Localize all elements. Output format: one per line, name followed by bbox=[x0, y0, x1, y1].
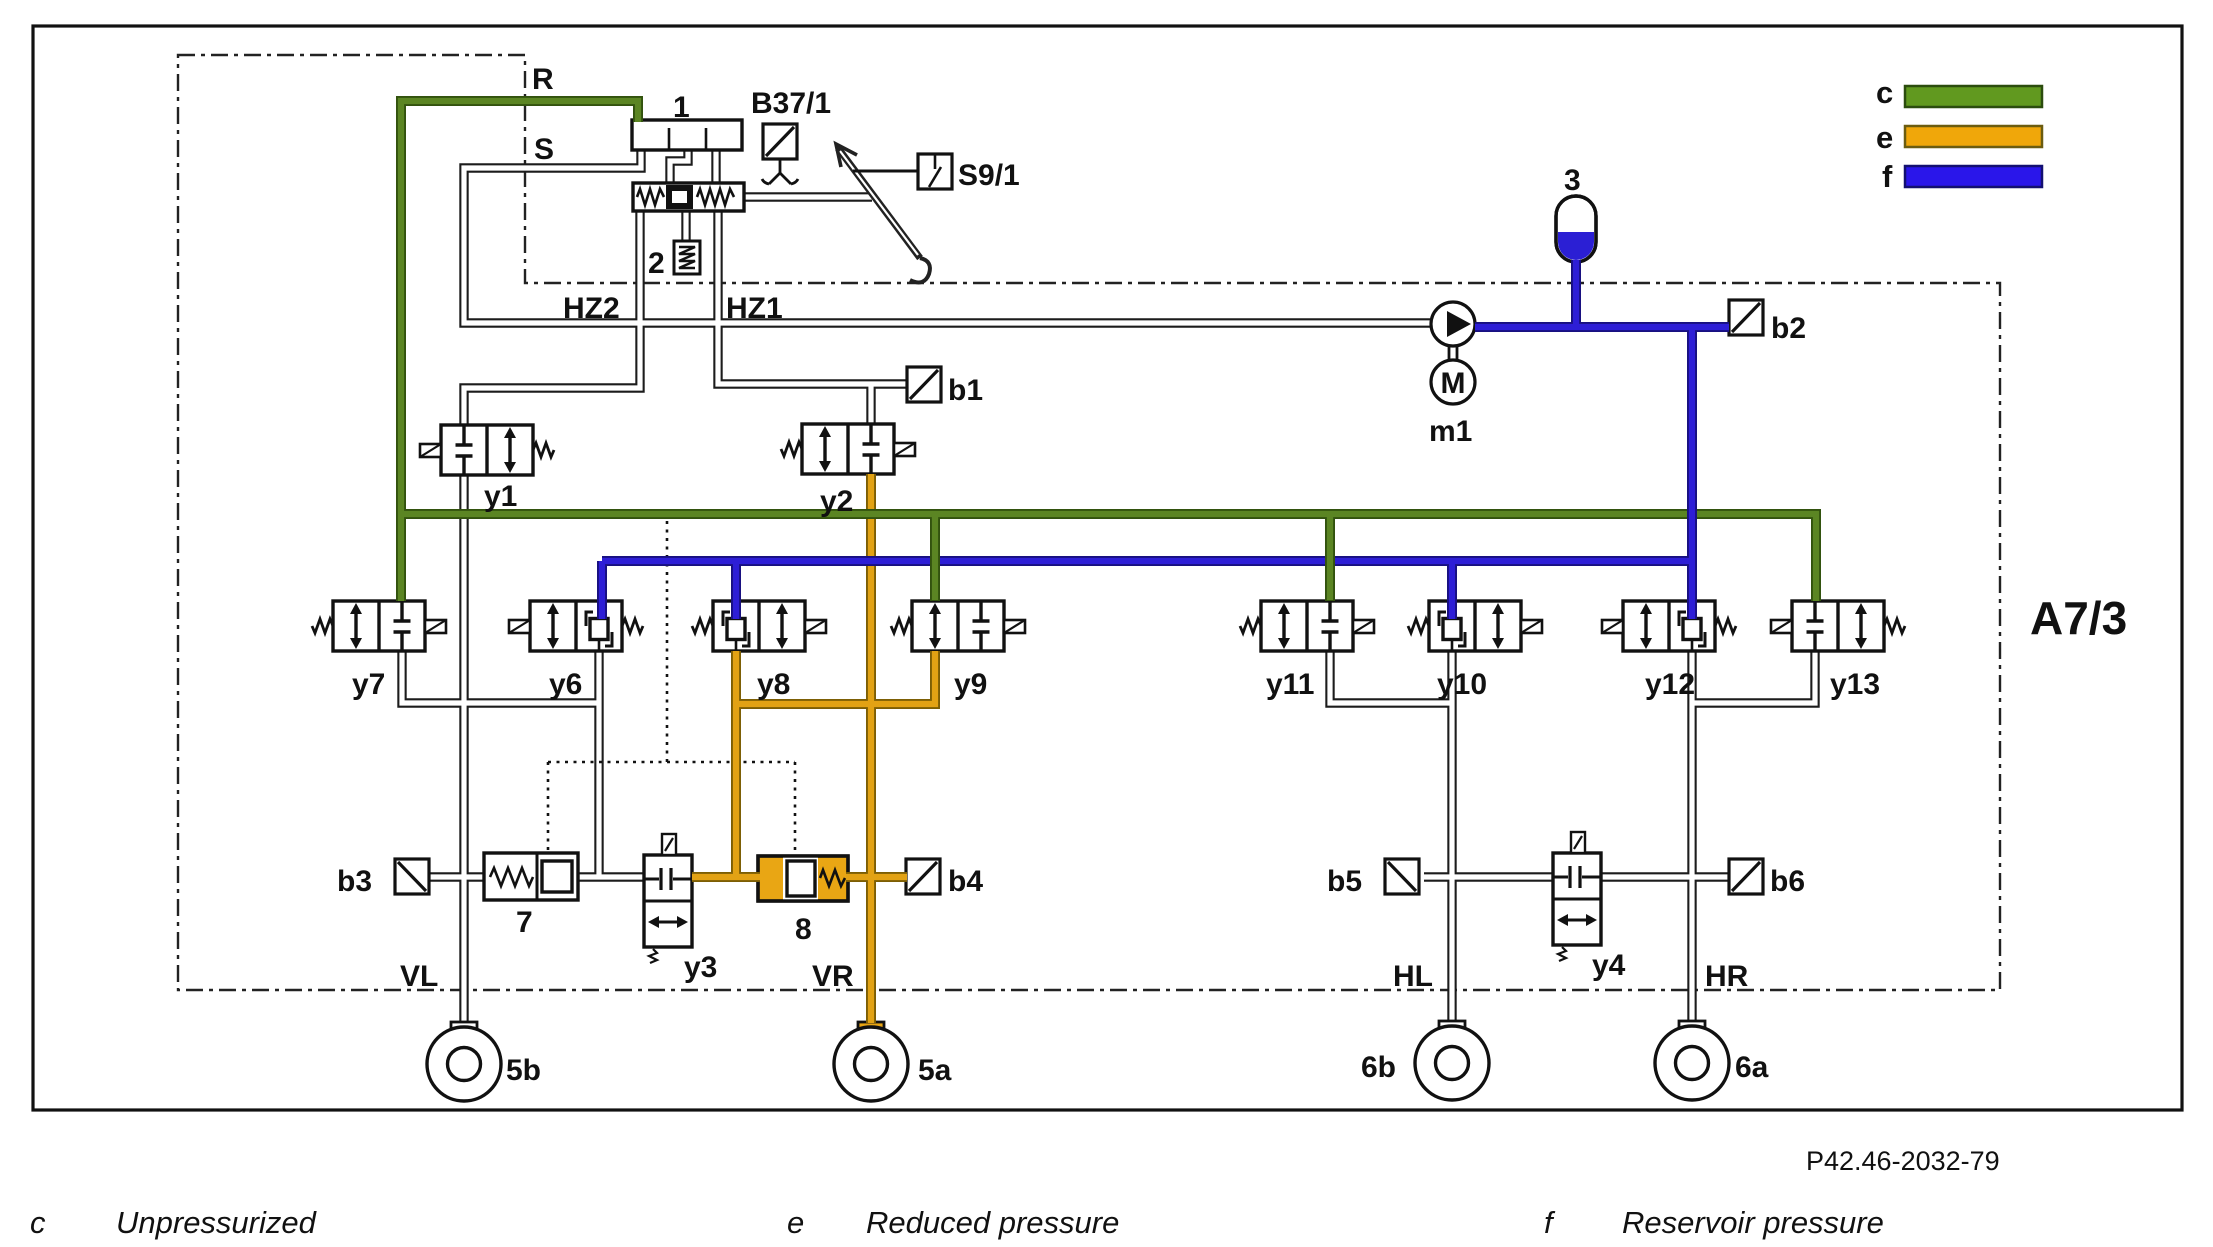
svg-text:f: f bbox=[1882, 159, 1893, 194]
svg-text:y8: y8 bbox=[757, 668, 790, 701]
valve y9 bbox=[891, 601, 1025, 651]
svg-text:b5: b5 bbox=[1327, 865, 1362, 898]
svg-text:R: R bbox=[532, 63, 554, 96]
svg-text:8: 8 bbox=[795, 913, 812, 946]
accumulator 3 bbox=[1556, 196, 1596, 262]
motor m1 bbox=[1431, 360, 1475, 404]
svg-text:b2: b2 bbox=[1771, 312, 1806, 345]
blue network dark edge bbox=[602, 260, 1729, 619]
svg-text:7: 7 bbox=[516, 906, 533, 939]
svg-text:y1: y1 bbox=[484, 480, 517, 513]
svg-text:3: 3 bbox=[1564, 164, 1581, 197]
svg-text:HZ2: HZ2 bbox=[563, 292, 620, 325]
svg-text:Reduced pressure: Reduced pressure bbox=[866, 1205, 1119, 1240]
svg-text:HL: HL bbox=[1393, 960, 1433, 993]
svg-text:e: e bbox=[1876, 120, 1893, 155]
pressure regulator valve 7 bbox=[484, 853, 578, 900]
valve y1 bbox=[420, 425, 554, 475]
wheel 6b bbox=[1415, 1026, 1489, 1100]
changeover valve y3 bbox=[644, 834, 692, 963]
legend bar e orange bbox=[1905, 126, 2042, 147]
svg-text:b3: b3 bbox=[337, 865, 372, 898]
master cylinder body bbox=[633, 183, 744, 211]
pilot dotted line from green bus down bbox=[666, 521, 669, 762]
svg-text:y10: y10 bbox=[1437, 668, 1487, 701]
legend bar f blue bbox=[1905, 166, 2042, 187]
wheel 5b bbox=[427, 1027, 501, 1101]
wheel 5a bbox=[834, 1027, 908, 1101]
svg-text:P42.46-2032-79: P42.46-2032-79 bbox=[1806, 1146, 2000, 1176]
green drop over blue at y9 bbox=[930, 519, 940, 601]
pressure sensor b6 bbox=[1729, 859, 1763, 894]
B37/1 stem and fork linkage bbox=[762, 159, 798, 184]
green network core bbox=[401, 101, 1816, 601]
green drop over blue at y11 bbox=[1325, 519, 1335, 601]
svg-text:y4: y4 bbox=[1592, 949, 1626, 982]
valve y11 bbox=[1240, 601, 1374, 651]
gray pipes black outline layer bbox=[402, 150, 1815, 1023]
pressure sensor b3 bbox=[395, 859, 429, 894]
svg-text:S: S bbox=[534, 133, 554, 166]
svg-text:m1: m1 bbox=[1429, 415, 1472, 448]
svg-text:2: 2 bbox=[648, 247, 665, 280]
pump-motor coupling bbox=[1449, 347, 1457, 359]
damper 2 bbox=[674, 241, 700, 274]
svg-text:B37/1: B37/1 bbox=[751, 87, 831, 120]
wheel 6a stub bbox=[1679, 1021, 1705, 1042]
valve y10 bbox=[1408, 601, 1542, 651]
pilot dotted to valve 8 bbox=[794, 762, 797, 856]
A7/3 dash-dot boundary bbox=[178, 55, 2000, 990]
svg-text:y12: y12 bbox=[1645, 668, 1695, 701]
valve y12 bbox=[1602, 601, 1736, 651]
wheel 6b stub bbox=[1439, 1021, 1465, 1042]
svg-text:y3: y3 bbox=[684, 951, 717, 984]
pressure sensor b4 bbox=[906, 859, 940, 894]
svg-text:6b: 6b bbox=[1361, 1051, 1396, 1084]
svg-text:b6: b6 bbox=[1770, 865, 1805, 898]
pilot dotted horizontal bbox=[548, 761, 795, 764]
svg-text:y7: y7 bbox=[352, 668, 385, 701]
brake pedal bbox=[836, 144, 930, 282]
svg-text:y13: y13 bbox=[1830, 668, 1880, 701]
changeover valve y4 bbox=[1553, 832, 1601, 961]
svg-text:Reservoir pressure: Reservoir pressure bbox=[1622, 1205, 1884, 1240]
pump bbox=[1431, 302, 1475, 346]
svg-text:Unpressurized: Unpressurized bbox=[116, 1205, 318, 1240]
svg-text:c: c bbox=[30, 1205, 46, 1240]
pressure sensor b2 bbox=[1729, 300, 1763, 335]
svg-text:e: e bbox=[787, 1205, 804, 1240]
wheel 5a stub bbox=[858, 1022, 884, 1043]
svg-text:y9: y9 bbox=[954, 668, 987, 701]
pedal switch S9/1 bbox=[918, 154, 952, 189]
pressure sensor b1 bbox=[907, 367, 941, 402]
orange network core bbox=[692, 474, 935, 1023]
blue bus repainted over orange crossing bbox=[858, 556, 886, 566]
svg-text:HZ1: HZ1 bbox=[726, 292, 783, 325]
svg-text:b4: b4 bbox=[948, 865, 983, 898]
pressure sensor b5 bbox=[1385, 859, 1419, 894]
svg-text:M: M bbox=[1441, 367, 1466, 400]
svg-text:HR: HR bbox=[1705, 960, 1749, 993]
svg-text:A7/3: A7/3 bbox=[2030, 592, 2127, 644]
svg-text:5b: 5b bbox=[506, 1054, 541, 1087]
legend bar c green bbox=[1905, 86, 2042, 107]
svg-text:y11: y11 bbox=[1266, 668, 1314, 701]
blue network core bbox=[602, 260, 1729, 619]
svg-text:5a: 5a bbox=[918, 1054, 952, 1087]
green bus repainted over orange crossing bbox=[858, 509, 886, 519]
brake fluid sensor B37/1 bbox=[763, 124, 797, 159]
gray pipes white core layer bbox=[402, 150, 1815, 1023]
svg-text:1: 1 bbox=[673, 91, 690, 124]
valve y13 bbox=[1771, 601, 1905, 651]
svg-text:y2: y2 bbox=[820, 485, 853, 518]
wheel 6a bbox=[1655, 1026, 1729, 1100]
svg-text:VR: VR bbox=[812, 960, 854, 993]
svg-text:y6: y6 bbox=[549, 668, 582, 701]
orange network dark edge bbox=[692, 474, 935, 1023]
green network dark edge bbox=[401, 101, 1816, 601]
valve y8 bbox=[692, 601, 826, 651]
pressure regulator valve 8 bbox=[758, 856, 848, 901]
svg-text:c: c bbox=[1876, 75, 1893, 110]
valve y7 bbox=[312, 601, 446, 651]
valve y6 bbox=[509, 601, 643, 651]
svg-text:b1: b1 bbox=[948, 374, 983, 407]
wheel 5b stub bbox=[451, 1022, 477, 1043]
svg-text:S9/1: S9/1 bbox=[958, 159, 1020, 192]
valve y2 bbox=[781, 424, 915, 474]
wire: pedal to S9/1 bbox=[853, 170, 918, 173]
svg-text:6a: 6a bbox=[1735, 1051, 1769, 1084]
reservoir 1 bbox=[632, 120, 742, 150]
svg-text:VL: VL bbox=[400, 960, 438, 993]
pilot dotted to valve 7 bbox=[547, 762, 550, 853]
